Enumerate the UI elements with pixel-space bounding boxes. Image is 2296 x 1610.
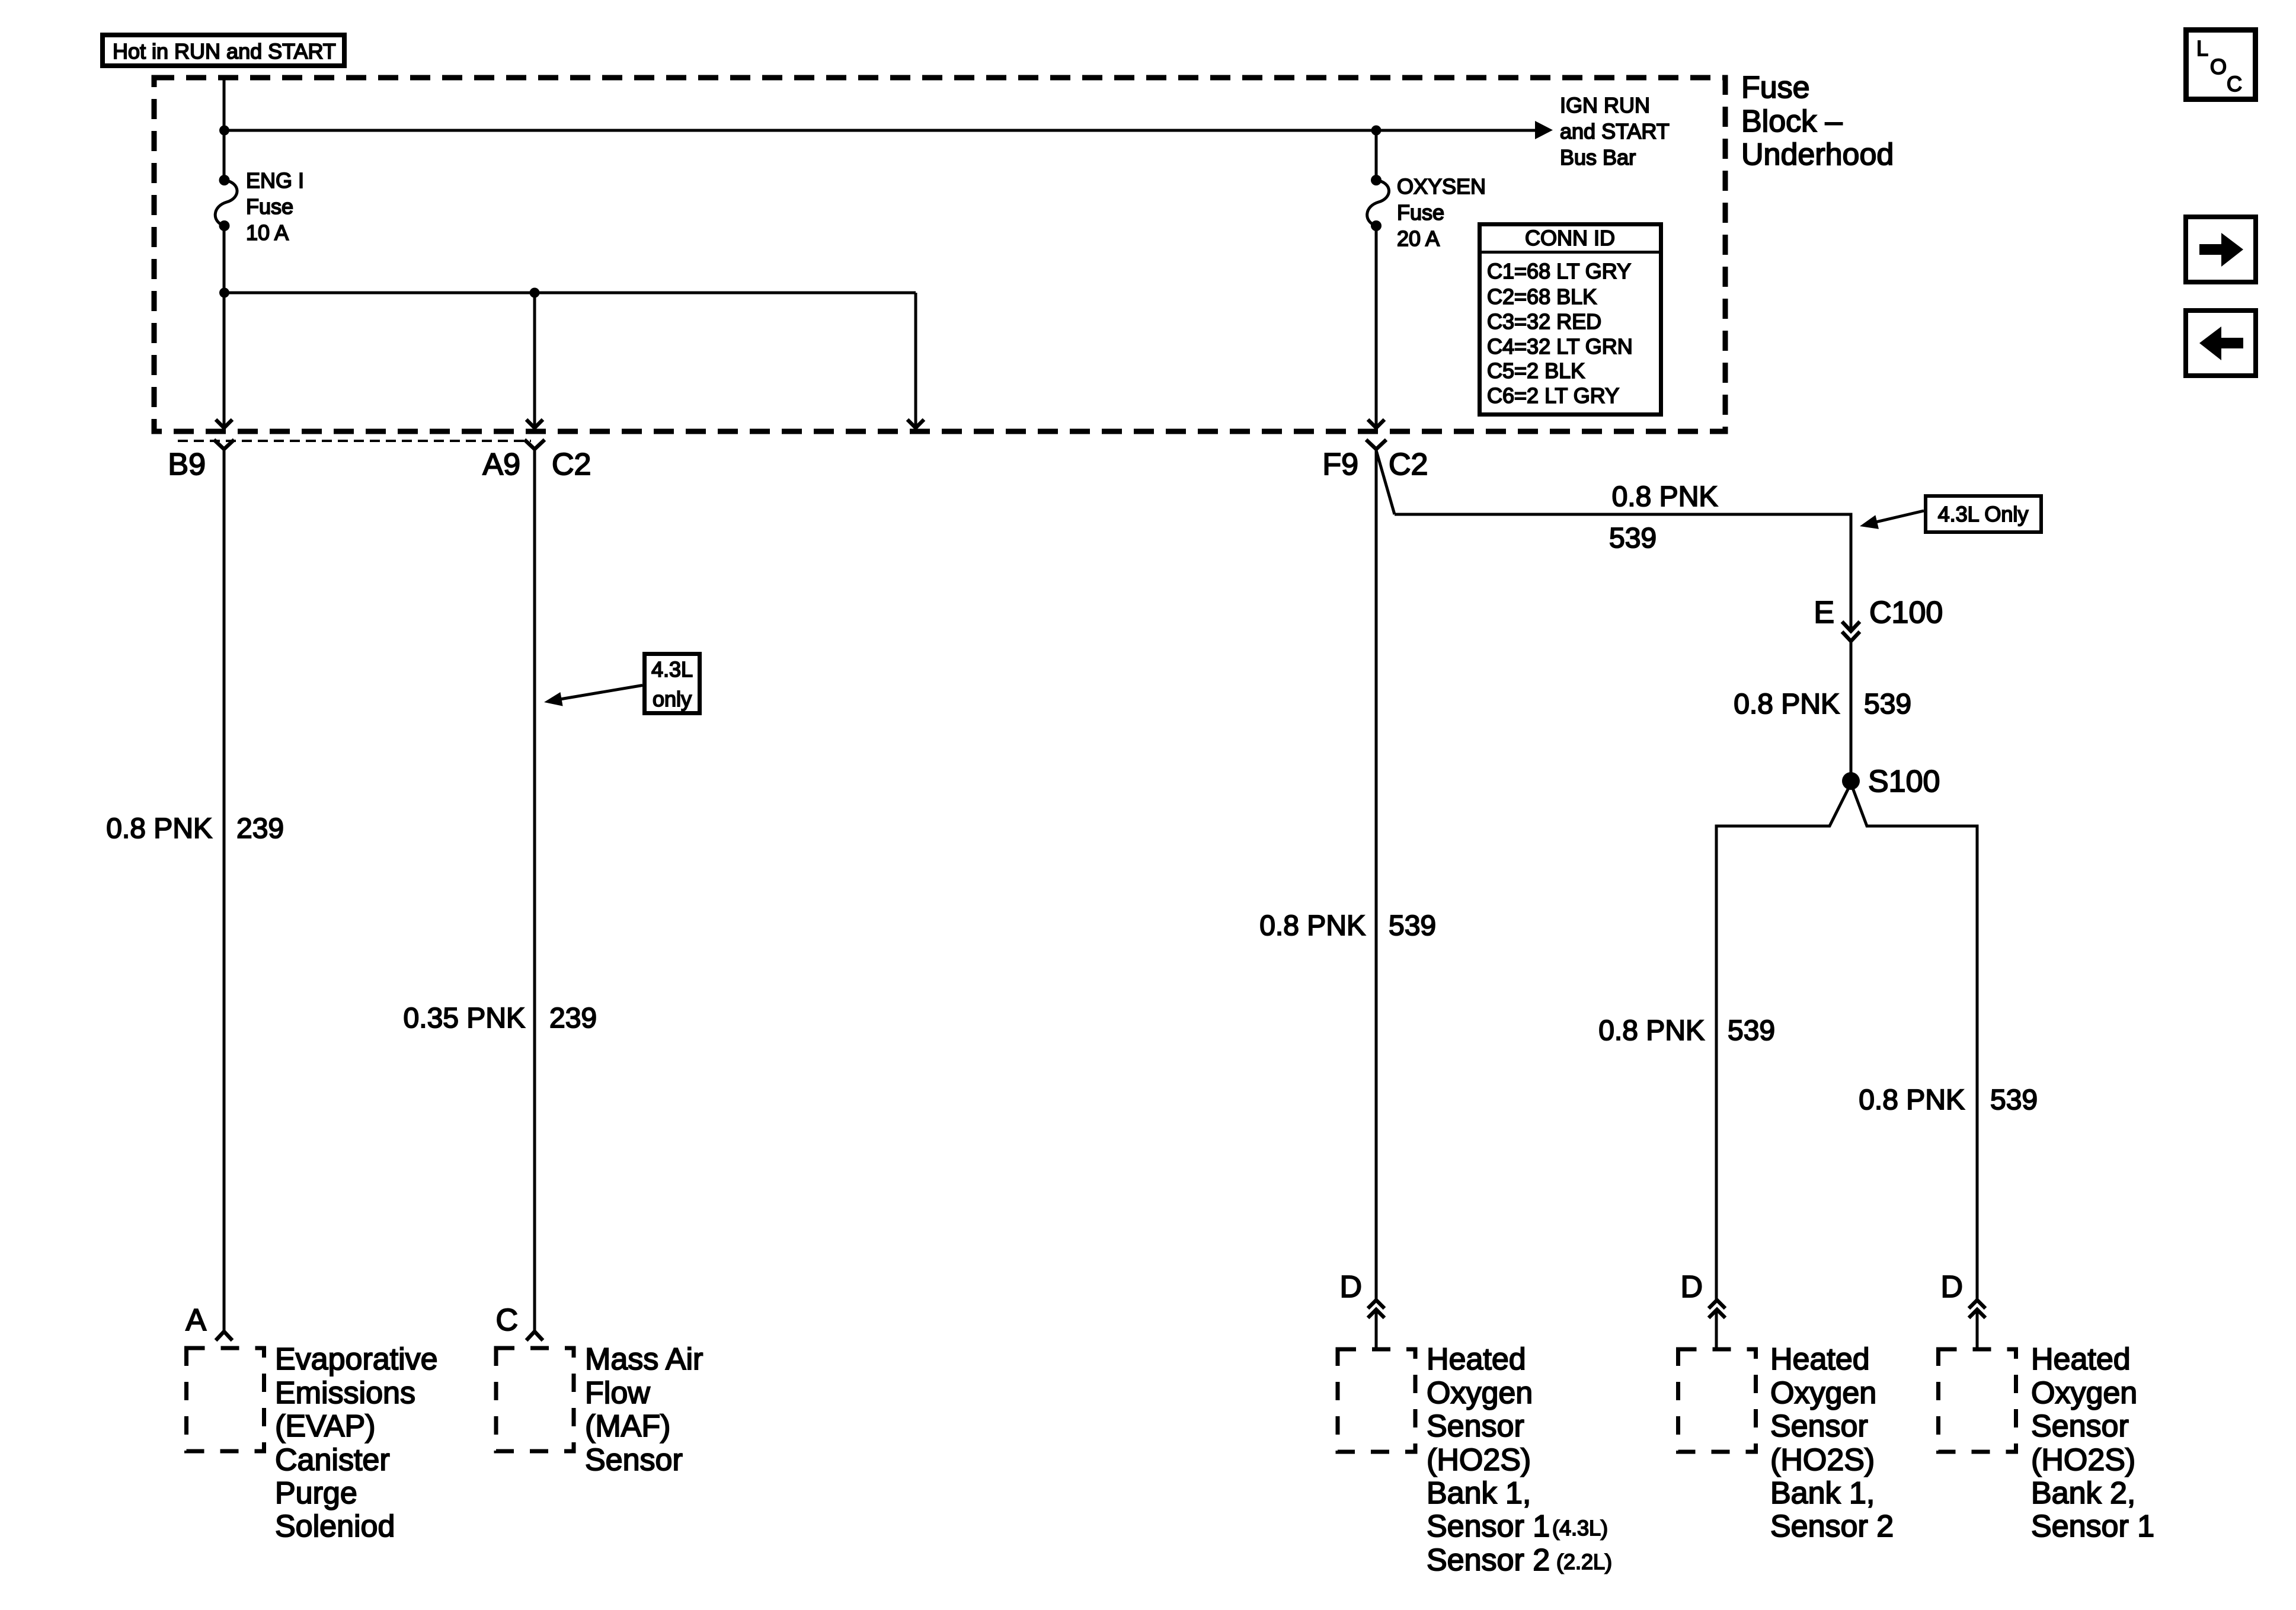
node: junction dot at left wire / bus bar	[219, 126, 229, 136]
wire: left feed vertical from top edge down to B9 arrow	[223, 78, 226, 180]
svg-text:Sensor 1: Sensor 1	[2031, 1509, 2154, 1544]
node: junction dot at second branch	[219, 288, 229, 298]
connector line C2 (thin dashed) between B9 and A9	[178, 440, 531, 442]
connector D at HO2S bank2 sensor1 (double chevron)	[1969, 1300, 1985, 1318]
connector A9 (Y symbol)	[525, 440, 545, 449]
table: CONN ID	[1479, 225, 1661, 415]
svg-text:Sensor 2: Sensor 2	[1427, 1543, 1550, 1577]
component box: HO2S bank1 sensor1	[1338, 1349, 1415, 1452]
label: Heated Oxygen Sensor (HO2S) Bank 1 Sensor 2	[1770, 1342, 1894, 1544]
svg-text:D: D	[1940, 1270, 1963, 1304]
node: splice S100	[1842, 772, 1860, 790]
svg-text:(2.2L): (2.2L)	[1556, 1550, 1612, 1574]
svg-text:Fuse: Fuse	[1397, 200, 1444, 225]
svg-text:Canister: Canister	[275, 1443, 390, 1477]
svg-text:C6=2 LT GRY: C6=2 LT GRY	[1487, 383, 1619, 408]
wire: S100 right branch diagonal and run	[1851, 783, 1977, 1300]
arrowhead: F9 exit arrow	[1368, 420, 1384, 428]
fuse block Fuse Block - Underhood dashed outline	[154, 78, 1725, 431]
svg-text:(EVAP): (EVAP)	[275, 1409, 376, 1443]
connector D at HO2S bank1 sensor2 (double chevron)	[1709, 1300, 1725, 1318]
wire: second horizontal branch line	[224, 292, 916, 295]
svg-text:Purge: Purge	[275, 1476, 357, 1510]
svg-text:Evaporative: Evaporative	[275, 1342, 438, 1377]
svg-text:Sensor 1: Sensor 1	[1427, 1509, 1550, 1544]
label: 0.8 PNK 239	[106, 813, 284, 844]
svg-text:(MAF): (MAF)	[585, 1409, 670, 1443]
label: 0.8 PNK 539 on C100 wire	[1734, 689, 1911, 720]
svg-text:(4.3L): (4.3L)	[1552, 1516, 1608, 1540]
arrowhead: right drop exit arrow	[907, 420, 924, 428]
wire: stub into HO2S2 box	[1715, 1310, 1718, 1349]
svg-text:4.3L: 4.3L	[651, 657, 693, 681]
svg-text:C4=32 LT GRN: C4=32 LT GRN	[1487, 334, 1633, 359]
label: 0.8 PNK 539 on right branch	[1859, 1084, 2038, 1116]
node: junction dot at A9 drop	[530, 288, 540, 298]
wire: right drop of second branch	[914, 293, 917, 428]
svg-text:C: C	[2227, 72, 2242, 96]
svg-text:10 A: 10 A	[246, 220, 289, 245]
label box: 4.3L only with arrow to MAF wire	[544, 654, 700, 713]
svg-text:Mass Air: Mass Air	[585, 1342, 703, 1377]
wire: diagonal branch from F9 to 4.3L horizontal run	[1376, 450, 1395, 514]
svg-text:C100: C100	[1869, 596, 1943, 630]
svg-text:Heated: Heated	[1427, 1342, 1526, 1377]
svg-text:D: D	[1339, 1270, 1362, 1304]
component box: HO2S bank2 sensor1	[1939, 1349, 2016, 1452]
svg-text:539: 539	[1389, 910, 1436, 942]
component box: EVAP canister purge solenoid	[187, 1348, 264, 1451]
connector B9 (Y symbol)	[214, 440, 234, 449]
svg-text:Heated: Heated	[1770, 1342, 1870, 1377]
label box: 4.3L Only with arrow to corner	[1860, 496, 2041, 532]
svg-text:Sensor: Sensor	[1770, 1409, 1868, 1443]
label: IGN RUN and START Bus Bar	[1560, 93, 1670, 169]
wire: OXYSEN vertical to fuse block edge	[1375, 226, 1378, 428]
legend box: LOC	[2186, 30, 2256, 100]
connector D at HO2S bank1 sensor1 (double chevron)	[1368, 1300, 1384, 1318]
label: Evaporative Emissions (EVAP) Canister Purge Soleniod	[275, 1342, 438, 1544]
svg-text:Bank 1,: Bank 1,	[1770, 1476, 1875, 1510]
svg-text:0.8 PNK: 0.8 PNK	[1259, 910, 1366, 942]
node: junction dot at OXYSEN tap	[1371, 126, 1382, 136]
svg-text:Bank 1,: Bank 1,	[1427, 1476, 1531, 1510]
svg-text:239: 239	[549, 1003, 597, 1034]
svg-text:ENG I: ENG I	[246, 168, 304, 193]
svg-text:Flow: Flow	[585, 1376, 650, 1410]
svg-text:Oxygen: Oxygen	[1770, 1376, 1876, 1410]
svg-text:OXYSEN: OXYSEN	[1397, 174, 1486, 199]
fuse ENG I 10 A	[215, 175, 237, 231]
svg-text:0.8 PNK: 0.8 PNK	[1859, 1084, 1965, 1116]
label: 0.8 PNK 539 on F9 wire	[1259, 910, 1436, 942]
svg-text:Sensor: Sensor	[585, 1443, 683, 1477]
svg-text:F9: F9	[1322, 447, 1358, 482]
label: Mass Air Flow (MAF) Sensor	[585, 1342, 703, 1477]
svg-text:Sensor: Sensor	[2031, 1409, 2129, 1443]
connector F9 (Y symbol)	[1366, 440, 1386, 449]
svg-text:Oxygen: Oxygen	[2031, 1376, 2137, 1410]
svg-text:C: C	[495, 1303, 518, 1337]
svg-text:Bank 2,: Bank 2,	[2031, 1476, 2135, 1510]
svg-text:Soleniod: Soleniod	[275, 1509, 395, 1544]
svg-text:C2: C2	[552, 447, 591, 482]
label: Fuse Block - Underhood	[1741, 71, 1894, 172]
wire: EVAP feed from B9 down	[223, 449, 226, 1331]
svg-text:20 A: 20 A	[1397, 226, 1440, 251]
svg-text:539: 539	[1990, 1084, 2038, 1116]
svg-text:(HO2S): (HO2S)	[1770, 1443, 1875, 1477]
svg-text:539: 539	[1728, 1015, 1775, 1046]
svg-text:A: A	[186, 1303, 206, 1337]
svg-text:(HO2S): (HO2S)	[2031, 1443, 2135, 1477]
svg-text:Fuse: Fuse	[246, 194, 293, 219]
svg-text:C2: C2	[1389, 447, 1428, 482]
svg-text:IGN RUN: IGN RUN	[1560, 93, 1650, 117]
svg-text:539: 539	[1609, 523, 1657, 554]
connector at EVAP (chevron)	[216, 1331, 232, 1340]
label box: Hot in RUN and START	[103, 35, 344, 66]
svg-text:0.8 PNK: 0.8 PNK	[1734, 689, 1840, 720]
wire: S100 left branch diagonal and run	[1716, 783, 1851, 1300]
svg-text:539: 539	[1864, 689, 1911, 720]
arrowhead: A9 exit arrow	[526, 420, 543, 428]
wire: MAF feed from A9 down	[533, 449, 536, 1331]
connector E C100 (double chevron)	[1842, 622, 1860, 641]
label: OXYSEN Fuse 20 A	[1397, 174, 1486, 251]
wire: horizontal 0.8 PNK 539 run to C100	[1395, 514, 1851, 631]
svg-text:C2=68 BLK: C2=68 BLK	[1487, 284, 1597, 309]
wire: A9 drop to fuse block edge	[533, 293, 536, 428]
svg-text:L: L	[2196, 36, 2208, 60]
arrowhead: bus bar arrow	[1535, 121, 1553, 139]
svg-text:B9: B9	[168, 447, 206, 482]
legend box: left arrow	[2186, 311, 2256, 376]
svg-text:0.35 PNK: 0.35 PNK	[404, 1003, 525, 1034]
wire: bus bar horizontal line to IGN RUN and START Bus Bar	[224, 129, 1536, 132]
svg-text:Sensor: Sensor	[1427, 1409, 1524, 1443]
svg-text:O: O	[2210, 55, 2227, 79]
svg-text:239: 239	[236, 813, 284, 844]
svg-text:C1=68 LT GRY: C1=68 LT GRY	[1487, 259, 1631, 283]
svg-text:Block –: Block –	[1741, 104, 1843, 139]
svg-text:only: only	[653, 687, 692, 711]
svg-text:Heated: Heated	[2031, 1342, 2131, 1377]
svg-text:0.8 PNK: 0.8 PNK	[106, 813, 212, 844]
svg-text:CONN ID: CONN ID	[1525, 226, 1615, 250]
svg-text:C5=2 BLK: C5=2 BLK	[1487, 359, 1585, 383]
svg-text:Sensor 2: Sensor 2	[1770, 1509, 1894, 1544]
arrowhead: B9 exit arrow at fuse block edge	[216, 420, 232, 428]
label: Heated Oxygen Sensor (HO2S) Bank 1 Sensor 1/2	[1427, 1342, 1612, 1577]
svg-text:S100: S100	[1868, 764, 1940, 799]
svg-text:Hot in RUN and START: Hot in RUN and START	[113, 39, 336, 63]
svg-text:Underhood: Underhood	[1741, 137, 1894, 172]
svg-text:E: E	[1814, 596, 1834, 630]
wire: stub into HO2S1 box	[1375, 1310, 1378, 1349]
svg-text:Fuse: Fuse	[1741, 71, 1810, 105]
svg-text:and START: and START	[1560, 119, 1670, 143]
component box: HO2S bank1 sensor2	[1678, 1349, 1756, 1452]
svg-text:Bus Bar: Bus Bar	[1560, 145, 1636, 169]
label: ENG I Fuse 10 A	[246, 168, 304, 245]
svg-text:4.3L Only: 4.3L Only	[1938, 502, 2029, 526]
svg-text:D: D	[1680, 1270, 1703, 1304]
wire: from C100 down to S100	[1850, 641, 1853, 781]
component box: MAF sensor	[496, 1348, 574, 1451]
svg-text:Oxygen: Oxygen	[1427, 1376, 1533, 1410]
wire: left vertical below fuse to bottom edge of fuse block	[223, 226, 226, 428]
svg-text:0.8 PNK: 0.8 PNK	[1598, 1015, 1705, 1046]
connector at MAF (chevron)	[526, 1331, 543, 1340]
label: Heated Oxygen Sensor (HO2S) Bank 2 Sensor 1	[2031, 1342, 2154, 1544]
fuse OXYSEN 20 A	[1367, 130, 1389, 231]
svg-text:A9: A9	[482, 447, 520, 482]
wire: stub into HO2S3 box	[1976, 1310, 1979, 1349]
label: 0.8 PNK 539 on left branch	[1598, 1015, 1775, 1046]
svg-text:Emissions: Emissions	[275, 1376, 415, 1410]
svg-text:0.8 PNK: 0.8 PNK	[1612, 481, 1718, 513]
label: 0.35 PNK 239	[404, 1003, 597, 1034]
legend box: right arrow	[2186, 217, 2256, 282]
svg-text:(HO2S): (HO2S)	[1427, 1443, 1531, 1477]
svg-text:C3=32 RED: C3=32 RED	[1487, 309, 1601, 334]
wire: HO2S bank1 sensor1 feed from F9 down	[1375, 449, 1378, 1300]
